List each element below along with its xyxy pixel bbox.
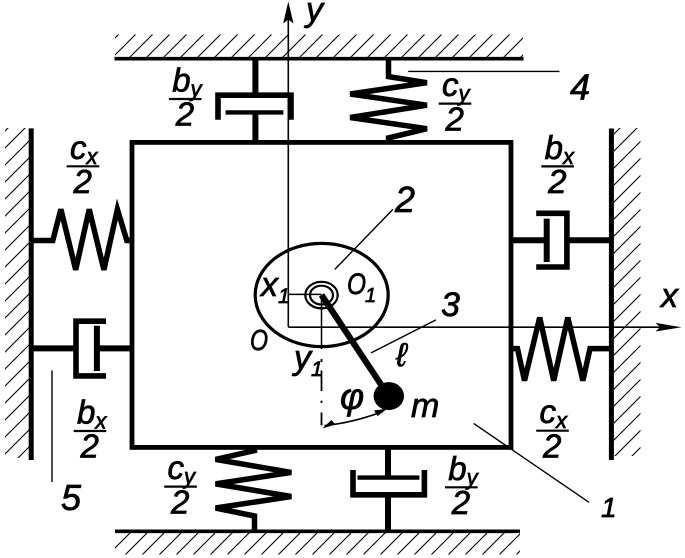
right wall — [609, 129, 614, 461]
damper rod mass side — [511, 237, 547, 243]
svg-text:5: 5 — [61, 477, 82, 518]
leader line for 1 — [474, 423, 589, 502]
projection line x1 — [288, 293, 321, 295]
hub outer ring — [305, 282, 337, 309]
x axis arrowhead — [656, 323, 682, 332]
damper cup — [76, 321, 106, 376]
damper rod lower — [252, 112, 258, 142]
svg-text:2: 2 — [547, 163, 566, 200]
damper cup — [353, 470, 424, 495]
svg-text:x: x — [659, 277, 679, 315]
label by/2 top — [169, 62, 204, 133]
damper rod wall side — [31, 345, 76, 351]
projection line y1 solid — [321, 295, 323, 349]
damper cup — [536, 213, 567, 267]
damper bx/2 left — [31, 321, 132, 376]
svg-text:m: m — [411, 387, 439, 425]
left wall hatching — [5, 128, 29, 458]
label by/2 bottom — [445, 450, 480, 521]
phi arc arrowhead right — [374, 409, 388, 417]
svg-text:φ: φ — [340, 376, 364, 417]
y axis arrowhead — [283, 2, 293, 24]
bottom wall — [115, 529, 520, 533]
label cx/2 right-bottom — [536, 393, 569, 464]
leader line for 4 — [408, 70, 559, 72]
svg-text:2: 2 — [170, 483, 189, 520]
svg-text:1: 1 — [601, 492, 617, 523]
left wall — [29, 128, 34, 460]
label cx/2 left — [67, 129, 100, 200]
damper piston — [226, 110, 284, 114]
svg-text:2: 2 — [451, 484, 470, 521]
damper rod mass side — [97, 345, 132, 351]
damper rod upper — [252, 59, 258, 95]
svg-text:2: 2 — [73, 163, 92, 200]
damper by/2 bottom — [353, 448, 424, 532]
leader line for 2 — [335, 209, 393, 269]
spring cx/2 left — [31, 209, 132, 269]
svg-text:4: 4 — [570, 66, 590, 107]
damper rod lower — [385, 495, 391, 531]
svg-text:3: 3 — [441, 286, 460, 324]
svg-text:O: O — [250, 325, 268, 357]
x axis — [288, 326, 660, 328]
damper bx/2 right — [511, 213, 611, 267]
label cy/2 bottom — [164, 449, 197, 520]
damper rod wall side — [567, 237, 612, 243]
svg-text:ℓ: ℓ — [395, 336, 408, 373]
mass block 1 rectangle — [132, 142, 511, 447]
pendulum rod 3 — [322, 295, 385, 389]
y axis — [287, 14, 289, 327]
svg-text:2: 2 — [394, 179, 415, 220]
damper piston — [544, 219, 550, 262]
svg-text:O: O — [347, 268, 366, 301]
svg-text:1: 1 — [365, 285, 376, 307]
damper piston — [358, 475, 420, 479]
damper by/2 top — [218, 59, 291, 143]
svg-text:2: 2 — [542, 427, 561, 464]
phi arc — [325, 412, 384, 426]
rotor disc 2 — [255, 243, 388, 346]
spring cy/2 top — [350, 60, 427, 143]
leader line for 5 — [51, 370, 53, 482]
label bx/2 left-bottom — [74, 394, 108, 465]
damper rod upper — [385, 448, 391, 478]
svg-text:2: 2 — [175, 96, 194, 133]
svg-text:2: 2 — [80, 428, 99, 465]
svg-text:y: y — [304, 0, 325, 29]
pendulum mass m ball — [374, 382, 404, 410]
label bx/2 right — [541, 129, 575, 200]
top wall — [115, 57, 524, 61]
top wall hatching — [115, 35, 523, 58]
hub inner ring — [310, 286, 333, 305]
spring cy/2 bottom — [216, 448, 292, 532]
bottom wall hatching — [115, 533, 520, 555]
svg-text:2: 2 — [445, 100, 464, 137]
leader line for 3 — [371, 320, 436, 353]
damper cup — [218, 95, 291, 120]
label cy/2 top — [439, 66, 472, 137]
phi arc arrowhead left — [322, 420, 335, 429]
dash-dot extension — [321, 359, 323, 425]
damper piston — [94, 326, 100, 371]
spring cx/2 right — [511, 318, 611, 381]
right wall hatching — [614, 128, 641, 456]
